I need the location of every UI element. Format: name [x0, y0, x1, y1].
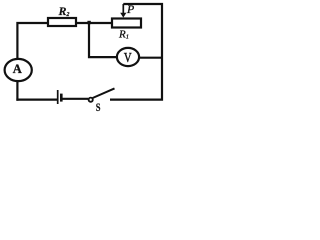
- voltmeter V letter: [124, 50, 132, 65]
- wire battery to switch: [62, 98, 88, 100]
- svg-text:S: S: [96, 102, 101, 114]
- svg-text:A: A: [13, 62, 22, 76]
- resistor R2 label: [58, 4, 70, 18]
- wire voltmeter branch left: [89, 23, 117, 57]
- resistor R2 box: [48, 18, 76, 26]
- switch S contact circle: [89, 98, 93, 102]
- switch lever: [93, 88, 115, 98]
- slider P label: [126, 2, 134, 16]
- rheostat R1 box: [112, 19, 141, 28]
- switch S label: [96, 102, 101, 114]
- wire bottom left to battery: [16, 98, 57, 100]
- svg-text:P: P: [126, 2, 134, 16]
- ammeter A circle: [5, 59, 32, 81]
- battery long plate (positive): [57, 90, 59, 104]
- voltmeter V circle: [117, 48, 139, 66]
- battery short plate (negative): [60, 94, 63, 102]
- ammeter A letter: [13, 62, 22, 76]
- node junction dot: [87, 21, 90, 24]
- wire bottom right / right side / top right: [110, 4, 162, 100]
- slider arrow stem: [122, 4, 124, 14]
- wire main loop left-top: [17, 23, 112, 101]
- slider arrow head: [120, 13, 126, 18]
- svg-text:V: V: [124, 50, 132, 65]
- wire voltmeter branch right: [139, 57, 162, 59]
- rheostat R1 label: [118, 28, 129, 40]
- svg-text:R2: R2: [58, 4, 70, 18]
- svg-text:R1: R1: [118, 28, 129, 40]
